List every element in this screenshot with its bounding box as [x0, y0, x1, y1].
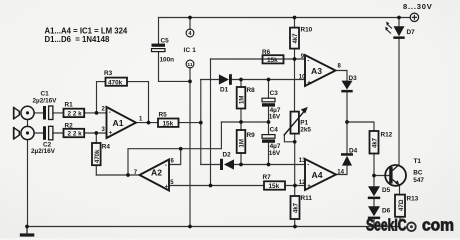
svg-text:1M: 1M [240, 96, 246, 104]
svg-text:1M: 1M [240, 139, 246, 147]
watermark SeekIC.com [366, 216, 454, 234]
op-amp A1 [102, 107, 144, 138]
svg-text:R8: R8 [247, 87, 256, 94]
node T1 base / R12 / D5 [372, 174, 376, 178]
wire R6 left drop to pin5 rail [210, 59, 212, 186]
node ground rail / R11 [293, 225, 297, 229]
wire D1 rail to A3 pin10 [231, 79, 305, 81]
svg-text:D5: D5 [382, 187, 391, 194]
wire node to R12 [347, 122, 374, 131]
wire input row1 [34, 112, 106, 114]
wire mid rail [221, 121, 268, 123]
svg-text:R7: R7 [263, 174, 272, 181]
connector K1 [14, 106, 34, 119]
node R5 output / rectifier feed [199, 121, 203, 125]
svg-text:SeekIC: SeekIC [366, 216, 407, 234]
wire T1 emitter to R13 [399, 186, 401, 195]
svg-text:-: - [109, 110, 111, 116]
wire R13 to ground rail [399, 217, 401, 227]
wire R5 to rectifier feed node [179, 122, 201, 124]
op-amp A2 (mirrored, output left) [134, 158, 175, 190]
wire R3 feedback loop [97, 82, 149, 123]
svg-text:15k: 15k [163, 121, 174, 128]
wire R10 leads [294, 18, 296, 60]
wire D7 to T1 collector [398, 39, 400, 165]
svg-text:4k7: 4k7 [294, 202, 300, 213]
svg-text:2µ2/16V: 2µ2/16V [31, 148, 56, 155]
node A2 pin6 feedback [179, 147, 183, 151]
node A1 pin2 / R3 tap [95, 111, 99, 115]
resistor R13 [395, 195, 419, 217]
wire C4 leads [268, 122, 270, 165]
svg-text:16V: 16V [269, 150, 281, 157]
svg-text:R5: R5 [159, 112, 168, 119]
node ground rail / input shield [25, 225, 29, 229]
svg-text:R1: R1 [65, 101, 74, 108]
svg-text:100n: 100n [160, 56, 175, 63]
wire A2 output to R4 [96, 174, 139, 176]
diode D1 [219, 74, 232, 93]
svg-text:11: 11 [187, 62, 192, 68]
LED D7 [385, 22, 415, 39]
svg-text:C4: C4 [270, 127, 279, 134]
svg-text:+: + [307, 80, 311, 86]
wire input row2 [34, 132, 106, 134]
svg-text:D1: D1 [220, 86, 229, 93]
node top rail / D7 branch [397, 16, 401, 20]
wire A2 pin5 rail to R7 [169, 185, 264, 187]
wire base node to T1 base [374, 175, 389, 177]
node top rail / IC1 pin4 branch [188, 16, 192, 20]
svg-text:A4: A4 [312, 170, 323, 180]
wire R9 leads [240, 122, 242, 165]
svg-text:4k7: 4k7 [293, 33, 299, 44]
node D1 rail / C3 top [267, 78, 271, 82]
svg-text:R13: R13 [407, 196, 419, 203]
svg-text:15k: 15k [267, 57, 278, 64]
wire C3 leads [268, 80, 270, 123]
svg-text:D3: D3 [349, 75, 358, 82]
wire node9 down to P1 top [294, 59, 296, 112]
node A3 pin9 / R6 / R10 / P1 top [293, 57, 297, 61]
svg-text:10: 10 [299, 75, 306, 81]
wire R11 bottom [294, 219, 296, 227]
svg-text:2 2 k: 2 2 k [68, 111, 83, 118]
diode D4 [341, 148, 358, 166]
node D3 / D4 / R12 [345, 120, 349, 124]
svg-text:R6: R6 [262, 49, 271, 56]
resistor R3 [104, 70, 127, 87]
svg-text:-: - [307, 58, 309, 64]
wire R8 leads [240, 80, 242, 123]
node A1 output / R3 feedback [147, 121, 151, 125]
wire D2 rail to A4 pin13 [234, 164, 305, 166]
transistor T1 [385, 158, 424, 186]
svg-text:547: 547 [413, 177, 424, 184]
wire D3 to node [346, 92, 348, 122]
svg-text:R11: R11 [301, 195, 313, 202]
node ground rail / IC1 pin11 [188, 225, 192, 229]
wire node to D4 [346, 122, 348, 153]
svg-text:D7: D7 [407, 29, 416, 36]
capacitor C5 [152, 38, 175, 64]
node D2 rail / R9 bottom [239, 163, 243, 167]
resistor R4 [92, 143, 110, 165]
ground symbol [20, 227, 35, 237]
wire C5 bottom to pin11 node [159, 52, 191, 82]
svg-text:R12: R12 [381, 131, 393, 138]
svg-text:T1: T1 [414, 158, 422, 165]
capacitor C1 [33, 91, 58, 120]
svg-text:15k: 15k [269, 183, 280, 190]
resistor R10 [290, 27, 313, 49]
svg-text:D2: D2 [223, 151, 232, 158]
wire D4 to A4 output [336, 166, 348, 175]
capacitor C4 [262, 127, 281, 157]
connector K2 [14, 126, 34, 139]
resistor R2 [64, 122, 85, 137]
node C5 / IC1 pin11 junction [188, 80, 192, 84]
diode D3 [341, 75, 357, 93]
wire C5 branch top [158, 18, 160, 44]
resistor R5 [158, 112, 179, 128]
wire feed to D1 [201, 79, 219, 81]
wire P1 bottom through pin13 rail to pin12 node and R11 [294, 134, 296, 197]
resistor R8 [237, 87, 255, 109]
svg-text:4k7: 4k7 [373, 137, 379, 148]
svg-text:470k: 470k [108, 79, 123, 86]
svg-text:-: - [165, 163, 167, 169]
svg-text:R2: R2 [65, 122, 74, 129]
IC1 power pins 4 / 11 [184, 29, 197, 68]
svg-text:A1: A1 [113, 118, 124, 128]
wire D7 drop [398, 18, 400, 27]
wire IC1 pin4 stub [189, 18, 191, 30]
wire IC1 pin11 to ground rail [189, 68, 191, 227]
resistor R11 [291, 195, 313, 219]
resistor R1 [64, 101, 85, 117]
svg-text:D1...D6 = 1N4148: D1...D6 = 1N4148 [45, 35, 110, 44]
diode D2 [220, 151, 234, 170]
node mid rail / C3 bottom [267, 120, 271, 124]
svg-text:-: - [307, 162, 309, 168]
wire connector shield link [27, 120, 29, 227]
svg-text:8...30V: 8...30V [403, 2, 433, 11]
svg-text:+: + [165, 185, 169, 191]
potentiometer P1 [284, 107, 312, 136]
svg-text:+: + [109, 130, 113, 136]
wire feed to D2 [201, 164, 220, 166]
node P1 wiper tie [293, 140, 297, 144]
wire A3 output to D3 [336, 71, 348, 81]
resistor R12 [370, 131, 393, 154]
wire node9 to R6 and A3 pin9 [211, 58, 306, 60]
capacitor C3 [262, 90, 281, 120]
svg-text:A3: A3 [311, 66, 322, 76]
svg-text:R4: R4 [102, 144, 111, 151]
svg-text:com: com [422, 216, 454, 234]
annotation text block [45, 27, 128, 44]
wire rectifier feed vertical [200, 80, 202, 165]
wire A1 output [136, 122, 158, 124]
node D1 rail / R8 top [239, 78, 243, 82]
wire R7 to pin12 node [285, 185, 305, 187]
node mid rail / R8 bottom [239, 120, 243, 124]
svg-text:D4: D4 [349, 148, 358, 155]
wire mid rail drop to A2 feedback [128, 122, 221, 175]
svg-text:14: 14 [337, 169, 344, 175]
node A2 output / R4 [126, 173, 130, 177]
wire R4 leads [95, 133, 97, 175]
op-amp A4 [299, 158, 345, 190]
node A2 pin5 / R7 left [209, 184, 213, 188]
svg-text:R9: R9 [247, 132, 256, 139]
svg-text:D6: D6 [382, 207, 391, 214]
wire D6 to ground rail [373, 219, 375, 227]
svg-text:12: 12 [299, 180, 306, 186]
wire base node to D5 [373, 176, 375, 187]
svg-text:C3: C3 [270, 90, 279, 97]
wire P1 wiper tie [284, 135, 294, 142]
svg-text:16V: 16V [269, 113, 281, 120]
svg-text:2 2 k: 2 2 k [68, 131, 83, 138]
svg-text:+: + [307, 184, 311, 190]
diode D6 [368, 206, 391, 219]
resistor R9 [237, 130, 255, 153]
wire top supply rail [159, 17, 411, 19]
node D2 rail / C4 bottom [267, 163, 271, 167]
svg-text:47Ω: 47Ω [399, 199, 405, 211]
svg-text:BC: BC [413, 169, 423, 176]
wire A2 pin6 feedback jog [169, 149, 181, 165]
svg-text:A2: A2 [151, 168, 162, 178]
svg-text:R10: R10 [301, 27, 313, 34]
wire D5 to D6 [373, 199, 375, 207]
svg-text:IC 1: IC 1 [184, 47, 197, 54]
svg-text:R3: R3 [104, 70, 113, 77]
diode D5 [368, 186, 391, 199]
wire ground rail [27, 226, 400, 228]
svg-text:2µ2/16V: 2µ2/16V [33, 98, 58, 105]
svg-text:C1: C1 [41, 91, 50, 98]
node top rail / R10 branch [293, 16, 297, 20]
op-amp A3 [299, 54, 342, 86]
svg-text:470k: 470k [95, 149, 101, 163]
resistor R7 [263, 174, 286, 190]
node ground rail / D6 [372, 225, 376, 229]
capacitor C2 [31, 126, 56, 155]
wire R12 to base node [373, 154, 375, 176]
resistor R6 [262, 49, 284, 64]
svg-text:C5: C5 [161, 38, 170, 45]
node A1 pin3 / R4 tap [94, 131, 98, 135]
svg-text:2k5: 2k5 [300, 126, 311, 133]
node A4 pin12 / R7 / R11 / P1 [293, 184, 297, 188]
supply terminal + 8...30V [403, 2, 433, 22]
svg-text:13: 13 [299, 158, 306, 164]
